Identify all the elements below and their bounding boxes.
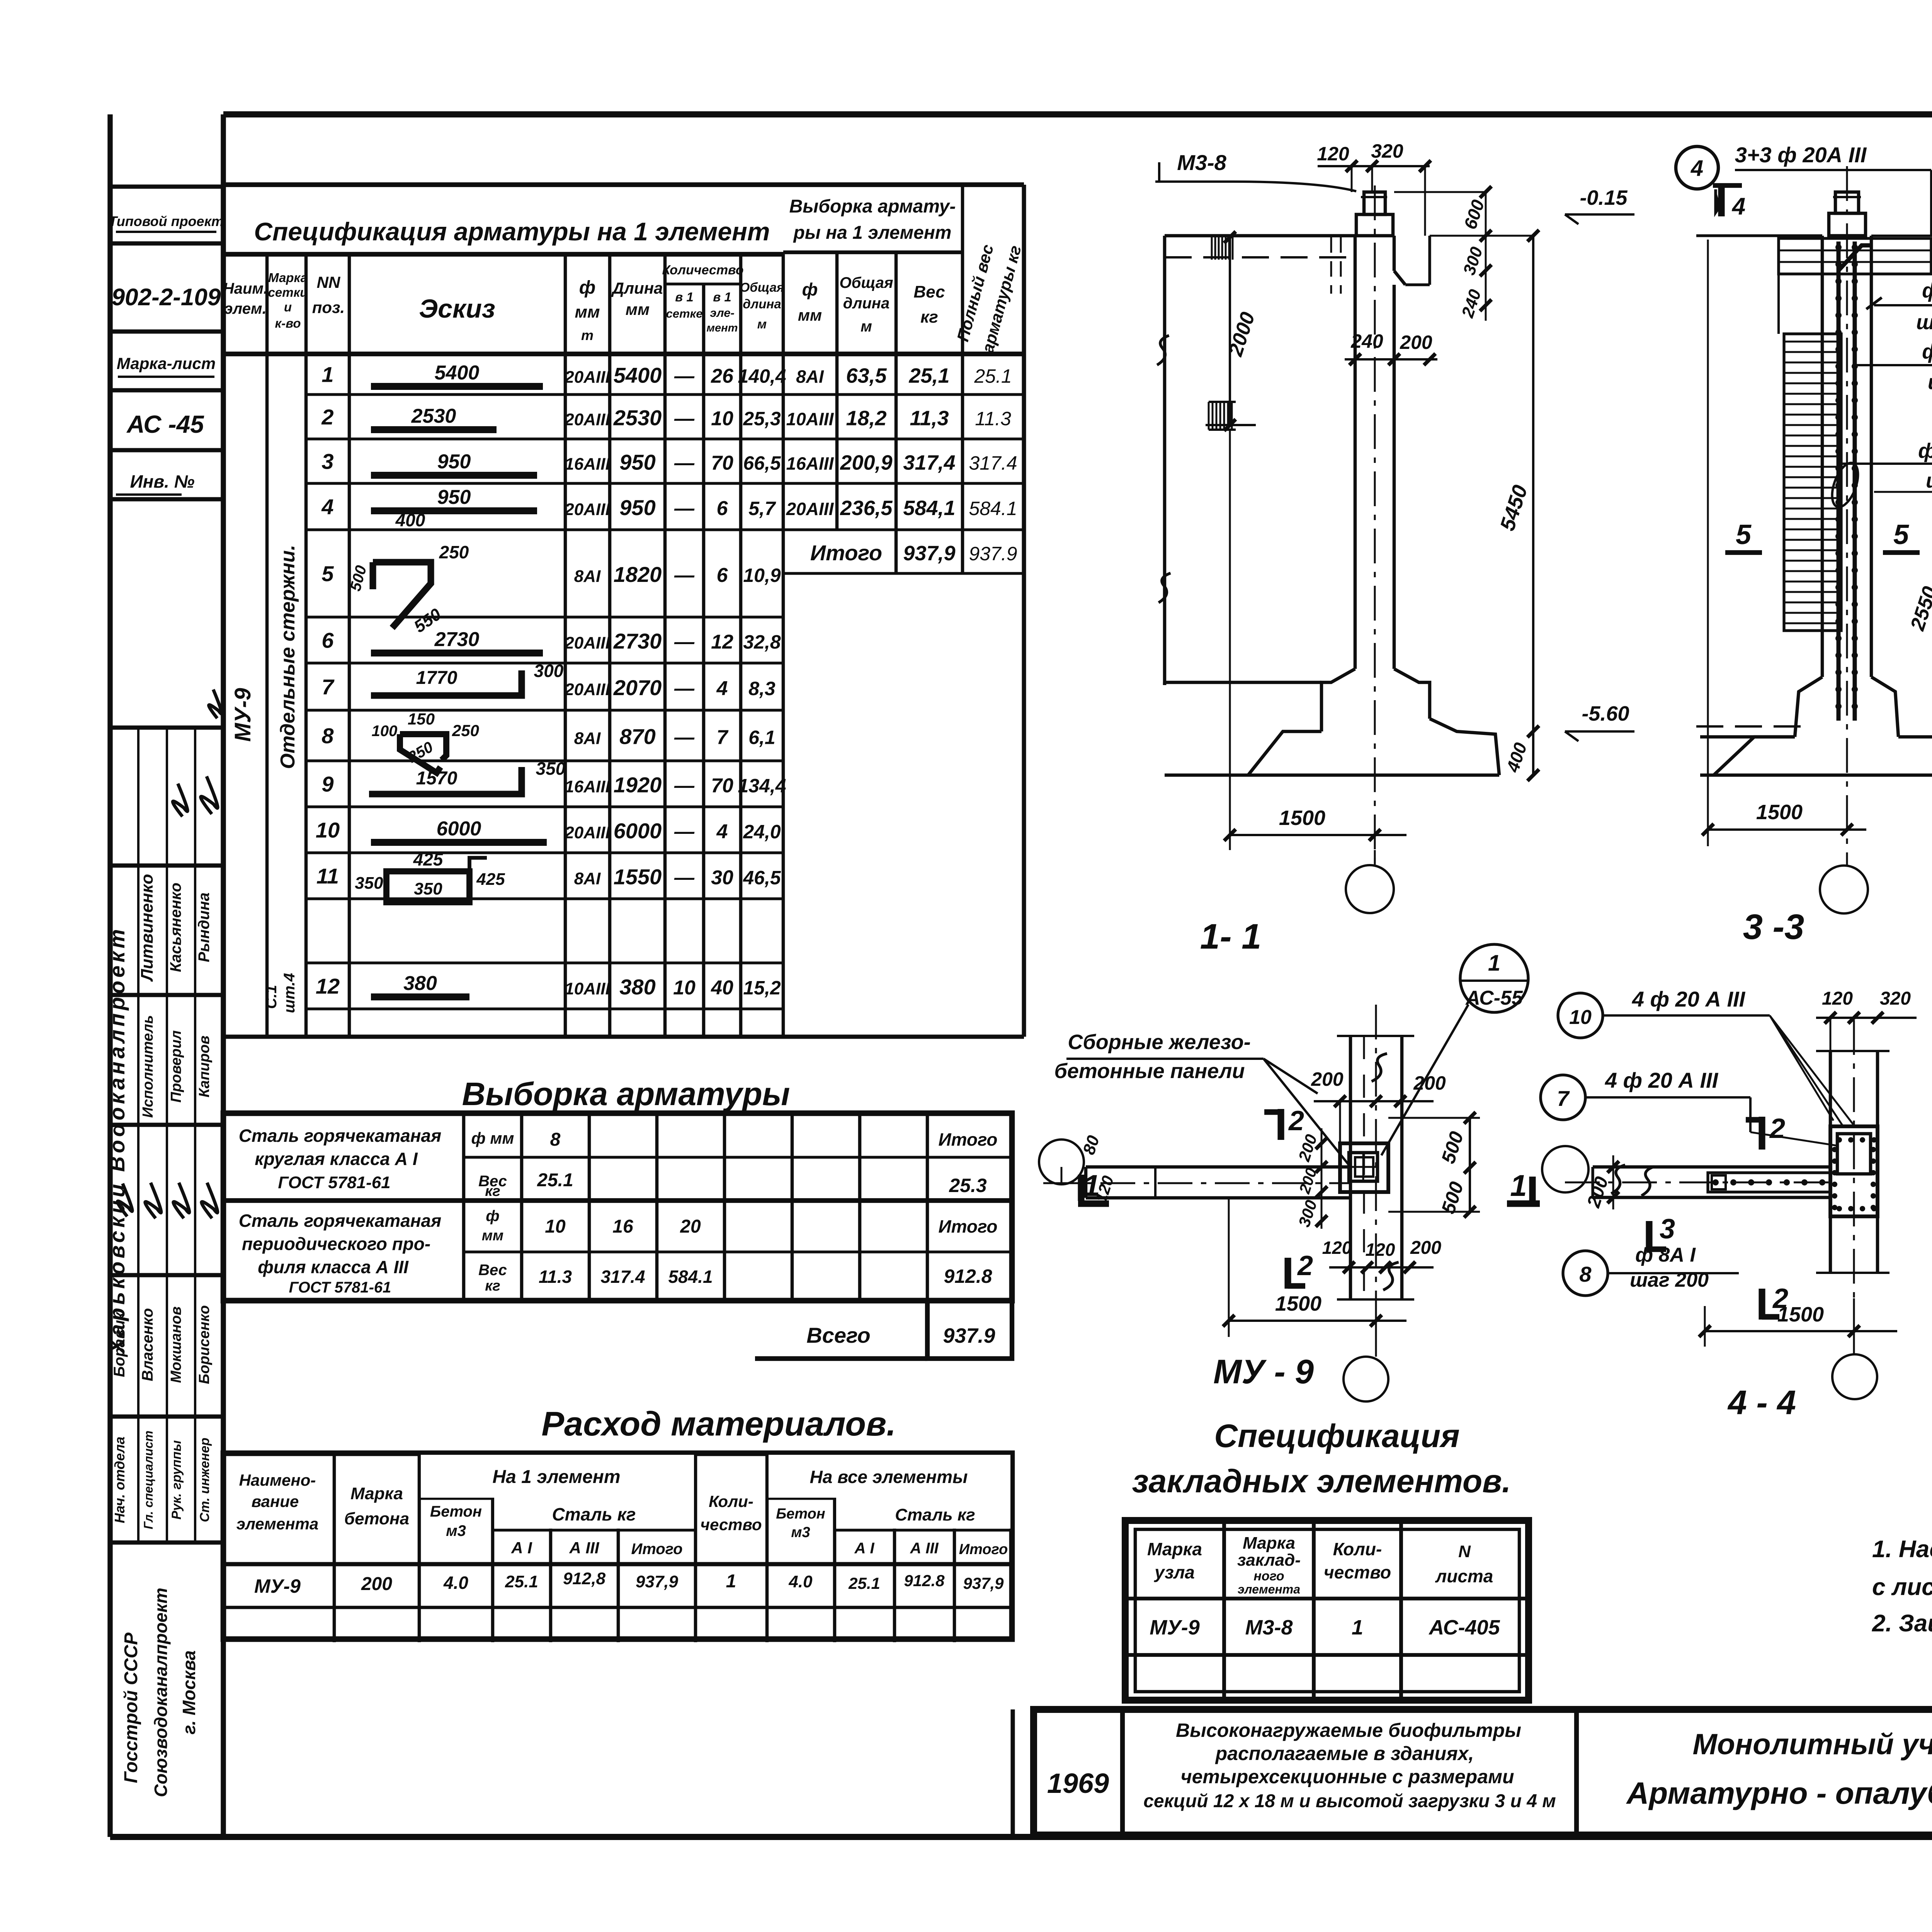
- svg-text:—: —: [674, 408, 695, 430]
- svg-text:2: 2: [321, 405, 333, 429]
- svg-text:240: 240: [1350, 330, 1383, 352]
- plan mu9 marker 2 top: [1264, 1105, 1304, 1140]
- svg-text:Расход материалов.: Расход материалов.: [541, 1405, 896, 1443]
- title block 1969: [1047, 1768, 1109, 1799]
- section 3-3 callout 1 f20AIII: [1855, 340, 1932, 394]
- stamp rotated names: [105, 689, 230, 1529]
- svg-text:длина: длина: [743, 297, 781, 311]
- svg-text:8: 8: [550, 1129, 561, 1150]
- svg-text:6: 6: [717, 497, 728, 520]
- svg-text:140,4: 140,4: [738, 366, 786, 387]
- svg-text:6,1: 6,1: [748, 727, 776, 748]
- svg-text:40: 40: [711, 977, 733, 999]
- svg-text:Сборные железо-: Сборные железо-: [1068, 1031, 1250, 1054]
- svg-text:Бетон: Бетон: [776, 1506, 825, 1522]
- svg-text:Общая: Общая: [740, 280, 784, 294]
- section 3-3 top markers: [1676, 143, 1932, 236]
- svg-text:8: 8: [1579, 1262, 1592, 1286]
- spec table outer: [223, 185, 1024, 254]
- svg-text:1: 1: [1488, 951, 1500, 976]
- svg-text:—: —: [674, 726, 695, 749]
- svg-text:—: —: [674, 631, 695, 653]
- svg-text:950: 950: [619, 495, 655, 520]
- svg-text:4: 4: [321, 495, 333, 519]
- svg-text:350: 350: [414, 879, 442, 898]
- svg-text:30: 30: [711, 867, 733, 889]
- svg-text:мм: мм: [626, 300, 650, 318]
- spec sketch row11 closed loop: [355, 849, 505, 902]
- svg-text:8: 8: [321, 724, 334, 748]
- svg-text:АС-55: АС-55: [1465, 987, 1523, 1009]
- svg-text:1920: 1920: [614, 773, 662, 797]
- svg-text:—: —: [674, 564, 695, 587]
- plan mu9 dim 1500: [1223, 1198, 1406, 1337]
- svg-text:Нач. отдела: Нач. отдела: [112, 1437, 128, 1523]
- svg-text:г. Москва: г. Москва: [179, 1650, 199, 1735]
- svg-text:950: 950: [437, 451, 471, 473]
- section 1-1 column: [1331, 185, 1430, 866]
- svg-text:Длина: Длина: [611, 279, 663, 297]
- svg-text:24,0: 24,0: [743, 821, 781, 843]
- section 3-3 dim 1500: [1702, 240, 1866, 846]
- svg-text:5400: 5400: [435, 362, 480, 384]
- svg-text:-5.60: -5.60: [1582, 702, 1629, 725]
- svg-text:Мокшанов: Мокшанов: [168, 1306, 184, 1383]
- svg-text:МУ-9: МУ-9: [230, 688, 255, 742]
- svg-text:Марка: Марка: [1147, 1539, 1202, 1559]
- svg-text:16АIII: 16АIII: [565, 777, 610, 796]
- svg-text:мм: мм: [575, 303, 600, 321]
- svg-text:Высоконагружаемые биофильтры: Высоконагружаемые биофильтры: [1176, 1719, 1521, 1741]
- svg-text:ф: ф: [486, 1207, 499, 1225]
- svg-text:ры на 1 элемент: ры на 1 элемент: [793, 223, 952, 243]
- svg-text:120: 120: [1366, 1240, 1395, 1260]
- section 1-1 wall & floor: [1157, 236, 1355, 685]
- section 3-3 axis circle: [1820, 866, 1868, 913]
- section 1-1 footing: [1165, 669, 1499, 775]
- svg-text:элем.: элем.: [224, 300, 266, 317]
- svg-text:26: 26: [711, 365, 734, 388]
- svg-text:2: 2: [1297, 1250, 1313, 1281]
- spec right totals: [786, 364, 1017, 565]
- svg-text:А I: А I: [511, 1539, 532, 1557]
- plan 44 axis circles: [1542, 1146, 1877, 1399]
- svg-text:N: N: [1458, 1542, 1471, 1561]
- svg-text:4 ф 20 А III: 4 ф 20 А III: [1605, 1068, 1719, 1092]
- svg-text:—: —: [674, 452, 695, 474]
- svg-text:располагаемые в зданиях,: располагаемые в зданиях,: [1215, 1743, 1474, 1764]
- svg-text:Итого: Итого: [631, 1541, 682, 1558]
- svg-text:Итого: Итого: [939, 1129, 998, 1150]
- svg-text:шт.4: шт.4: [281, 973, 298, 1013]
- svg-text:6000: 6000: [437, 818, 481, 840]
- plan mu9 title: [1213, 1352, 1314, 1391]
- svg-text:937,9: 937,9: [903, 542, 955, 565]
- svg-text:5: 5: [1893, 519, 1909, 550]
- svg-text:кг: кг: [485, 1183, 500, 1199]
- svg-text:Марка: Марка: [1243, 1534, 1295, 1553]
- plan 44 callout 10: [1558, 987, 1855, 1126]
- svg-text:584.1: 584.1: [969, 498, 1017, 519]
- svg-text:Рындина: Рындина: [196, 893, 213, 963]
- svg-text:Типовой проект: Типовой проект: [109, 213, 224, 229]
- svg-text:—: —: [674, 677, 695, 700]
- svg-text:длина: длина: [843, 295, 889, 312]
- svg-text:и: и: [284, 300, 292, 314]
- spec sketch row7 bar w hook: [371, 661, 564, 696]
- section 1-1 dim 2000: [1206, 231, 1259, 431]
- svg-text:8,3: 8,3: [748, 678, 776, 699]
- svg-text:3+3 ф 20А III: 3+3 ф 20А III: [1735, 143, 1867, 167]
- svg-text:ф 20А III: ф 20А III: [1918, 439, 1932, 463]
- svg-text:70: 70: [711, 775, 733, 797]
- svg-text:902-2-109: 902-2-109: [112, 284, 221, 311]
- section 3-3 callout 5 f8AI: [1866, 279, 1932, 334]
- svg-text:8АI: 8АI: [574, 567, 601, 586]
- zakladnye title: [1132, 1418, 1511, 1499]
- svg-text:вание: вание: [252, 1492, 299, 1510]
- svg-text:5400: 5400: [614, 363, 662, 388]
- svg-text:элемента: элемента: [1238, 1582, 1300, 1596]
- plan 44 column strip: [1816, 1020, 1889, 1298]
- svg-text:6: 6: [717, 564, 728, 587]
- svg-text:Касьяненко: Касьяненко: [167, 883, 184, 972]
- svg-text:мм: мм: [798, 306, 822, 324]
- svg-text:Спецификация: Спецификация: [1214, 1418, 1459, 1454]
- svg-text:мм: мм: [482, 1228, 503, 1244]
- svg-text:Борисенко: Борисенко: [196, 1305, 213, 1384]
- svg-text:Коли-: Коли-: [709, 1492, 753, 1510]
- svg-text:25.1: 25.1: [537, 1170, 573, 1190]
- svg-text:2. Защитный слой бетона: 2. Защитный слой бетона до рабочей армат…: [1872, 1610, 1932, 1637]
- svg-text:к-во: к-во: [275, 316, 301, 330]
- svg-text:134,4: 134,4: [738, 775, 786, 797]
- svg-text:4: 4: [1731, 193, 1745, 220]
- svg-text:320: 320: [1880, 988, 1911, 1009]
- svg-text:150: 150: [408, 710, 435, 728]
- svg-text:Проверил: Проверил: [168, 1031, 184, 1103]
- svg-text:На все элементы: На все элементы: [810, 1467, 968, 1487]
- svg-text:1770: 1770: [416, 668, 457, 688]
- svg-text:6000: 6000: [614, 819, 662, 843]
- svg-text:Марка: Марка: [350, 1484, 403, 1503]
- plan mu9 dims right 500 500: [1388, 1112, 1480, 1218]
- svg-text:м: м: [861, 318, 872, 335]
- svg-text:100: 100: [372, 723, 398, 740]
- svg-text:МУ-9: МУ-9: [1150, 1616, 1200, 1639]
- svg-text:20АIII: 20АIII: [564, 368, 610, 387]
- svg-text:70: 70: [711, 452, 733, 474]
- svg-text:2530: 2530: [613, 406, 662, 430]
- svg-text:912.8: 912.8: [944, 1265, 992, 1287]
- spec sketch row5 bent bar: [347, 542, 469, 636]
- svg-text:круглая класса А I: круглая класса А I: [255, 1149, 418, 1169]
- svg-text:10АIII: 10АIII: [786, 409, 834, 429]
- svg-text:четырехсекционные с размерами: четырехсекционные с размерами: [1180, 1766, 1514, 1787]
- svg-text:46,5: 46,5: [743, 867, 781, 889]
- svg-text:Инв. №: Инв. №: [130, 471, 195, 492]
- svg-text:1500: 1500: [1777, 1303, 1824, 1326]
- svg-text:сетки: сетки: [268, 285, 308, 299]
- section 3-3 labels 5: [1725, 519, 1920, 553]
- svg-text:200,9: 200,9: [840, 451, 892, 474]
- svg-text:Власенко: Власенко: [139, 1308, 156, 1381]
- svg-text:16АIII: 16АIII: [786, 454, 834, 474]
- svg-text:912,8: 912,8: [563, 1569, 606, 1588]
- svg-text:300: 300: [534, 661, 564, 681]
- svg-text:7: 7: [321, 675, 335, 699]
- vyborka title: [462, 1076, 790, 1112]
- svg-text:25.1: 25.1: [974, 366, 1012, 387]
- svg-text:4.0: 4.0: [788, 1572, 813, 1591]
- svg-text:М3-8: М3-8: [1245, 1616, 1293, 1639]
- section 1-1 top dims 120 320: [1317, 140, 1431, 236]
- svg-text:ного: ного: [1253, 1569, 1284, 1583]
- plan 44 callout 7: [1541, 1068, 1837, 1146]
- vsego total: [755, 1301, 1012, 1359]
- svg-text:350: 350: [536, 759, 566, 779]
- svg-text:317,4: 317,4: [903, 451, 955, 474]
- svg-text:в 1: в 1: [675, 290, 693, 304]
- svg-text:317.4: 317.4: [600, 1267, 645, 1287]
- svg-text:сетке: сетке: [666, 307, 703, 320]
- svg-text:7: 7: [1557, 1086, 1570, 1111]
- svg-text:ГОСТ 5781-61: ГОСТ 5781-61: [278, 1173, 390, 1192]
- svg-text:Гл. специалист: Гл. специалист: [141, 1430, 155, 1529]
- svg-text:11.3: 11.3: [539, 1267, 572, 1287]
- spec rows content: [316, 362, 786, 999]
- svg-text:Сталь кг: Сталь кг: [895, 1505, 975, 1524]
- svg-text:Отдельные стержни.: Отдельные стержни.: [277, 545, 299, 769]
- section 1-1 right small dims: [1394, 186, 1492, 321]
- section 1-1 dim 400: [1502, 740, 1531, 775]
- svg-text:2070: 2070: [613, 675, 662, 700]
- section 1-1 label M3-8: [1155, 150, 1356, 191]
- notes lines: [1872, 1536, 1932, 1637]
- section 1-1 level -5.60: [1565, 702, 1634, 741]
- svg-text:Коли-: Коли-: [1333, 1539, 1382, 1559]
- svg-text:4: 4: [716, 677, 728, 700]
- svg-text:25.1: 25.1: [848, 1574, 880, 1592]
- svg-text:эле-: эле-: [710, 306, 735, 320]
- stamp bottom box: [121, 1588, 199, 1797]
- plan mu9 leader text: [1054, 1031, 1350, 1167]
- svg-text:937,9: 937,9: [963, 1574, 1004, 1592]
- svg-text:элемента: элемента: [236, 1515, 319, 1533]
- svg-text:м: м: [757, 317, 767, 331]
- svg-text:20АIII: 20АIII: [564, 410, 610, 429]
- svg-text:кг: кг: [920, 308, 938, 327]
- svg-text:120: 120: [1317, 143, 1349, 165]
- svg-text:380: 380: [619, 975, 655, 999]
- svg-text:20АIII: 20АIII: [564, 634, 610, 653]
- svg-text:ф: ф: [802, 279, 818, 299]
- plan 44 top dims 120 320: [1816, 988, 1917, 1051]
- spec table body grid: [223, 185, 1024, 1037]
- plan mu9 wall: [1043, 1167, 1350, 1198]
- svg-text:350: 350: [355, 874, 383, 893]
- svg-text:Боравик: Боравик: [111, 1311, 128, 1377]
- svg-text:4 - 4: 4 - 4: [1727, 1383, 1796, 1422]
- plan mu9 marker 2 bottom: [1288, 1250, 1313, 1289]
- svg-text:Общая: Общая: [839, 274, 893, 291]
- svg-text:МУ - 9: МУ - 9: [1213, 1352, 1314, 1391]
- plan 44 marker 3: [1649, 1214, 1675, 1252]
- svg-text:584,1: 584,1: [903, 497, 955, 520]
- svg-text:Госстрой СССР: Госстрой СССР: [121, 1632, 141, 1783]
- svg-text:мент: мент: [707, 322, 738, 334]
- svg-text:63,5: 63,5: [846, 364, 887, 388]
- svg-text:Капиров: Капиров: [196, 1036, 213, 1097]
- section 1-1 title: [1200, 917, 1262, 956]
- svg-text:—: —: [674, 497, 695, 520]
- svg-text:Исполнитель: Исполнитель: [140, 1015, 156, 1118]
- svg-text:ф мм: ф мм: [471, 1129, 514, 1147]
- svg-text:12: 12: [316, 974, 340, 998]
- svg-text:317.4: 317.4: [969, 452, 1017, 474]
- svg-text:584.1: 584.1: [668, 1267, 713, 1287]
- svg-text:7: 7: [717, 726, 729, 749]
- svg-text:На 1 элемент: На 1 элемент: [492, 1467, 620, 1487]
- spec sketch row8 bent: [372, 710, 479, 773]
- svg-text:4: 4: [1690, 156, 1703, 181]
- svg-text:950: 950: [619, 450, 655, 474]
- plan mu9 dims left: [1295, 1128, 1327, 1229]
- svg-text:м3: м3: [791, 1524, 810, 1541]
- plan 44 dim 1500: [1699, 1303, 1897, 1347]
- svg-text:АС -45: АС -45: [126, 410, 204, 438]
- plan 44 slab: [1565, 1165, 1832, 1197]
- plan 44 title: [1727, 1383, 1796, 1422]
- svg-text:1. Настоящий чертеж расста: 1. Настоящий чертеж расстатривать совтес…: [1872, 1536, 1932, 1563]
- svg-text:12: 12: [711, 631, 733, 653]
- svg-text:250: 250: [439, 542, 469, 562]
- svg-text:узла: узла: [1154, 1562, 1195, 1582]
- section 3-3 title: [1743, 907, 1804, 947]
- zakladnye table: [1125, 1520, 1529, 1700]
- svg-text:ГОСТ 5781-61: ГОСТ 5781-61: [289, 1279, 391, 1296]
- svg-text:16: 16: [612, 1216, 633, 1237]
- stamp signature grid: [110, 728, 223, 1543]
- svg-text:15,2: 15,2: [743, 977, 781, 999]
- svg-text:200: 200: [1410, 1238, 1441, 1258]
- svg-text:кг: кг: [485, 1278, 500, 1294]
- svg-text:2530: 2530: [411, 405, 456, 427]
- svg-text:шаг 200: шаг 200: [1928, 371, 1932, 394]
- svg-text:8АI: 8АI: [574, 869, 601, 888]
- title block name: [1626, 1728, 1932, 1810]
- plan 44 marker 1 left: [1507, 1168, 1540, 1204]
- svg-text:950: 950: [437, 486, 471, 509]
- svg-text:Выборка армату-: Выборка армату-: [789, 196, 956, 217]
- plan mu9 center box: [1340, 1143, 1388, 1192]
- svg-text:Вес: Вес: [913, 282, 945, 301]
- svg-text:АС-405: АС-405: [1428, 1616, 1500, 1639]
- svg-text:2: 2: [1288, 1105, 1304, 1136]
- plan mu9 axis circles: [1039, 1139, 1388, 1401]
- section 3-3 rebar: [1835, 241, 1872, 721]
- svg-text:25,1: 25,1: [908, 364, 949, 388]
- plan mu9 dims top 200 200: [1311, 1068, 1446, 1143]
- svg-text:3 -3: 3 -3: [1743, 907, 1804, 947]
- svg-text:1- 1: 1- 1: [1200, 917, 1262, 956]
- svg-text:А III: А III: [569, 1539, 599, 1557]
- rashod table: [223, 1453, 1012, 1642]
- svg-text:400: 400: [395, 510, 425, 530]
- svg-text:11.3: 11.3: [975, 408, 1011, 430]
- svg-text:Итого: Итого: [939, 1216, 998, 1236]
- stamp column boxes: [109, 187, 224, 499]
- svg-text:—: —: [674, 365, 695, 388]
- section 1-1 level -0.15: [1565, 186, 1634, 224]
- plan mu9 marker 1 left: [1078, 1133, 1117, 1205]
- svg-text:поз.: поз.: [312, 298, 345, 316]
- svg-text:5: 5: [321, 561, 334, 586]
- svg-text:4: 4: [716, 821, 728, 843]
- svg-text:200: 200: [361, 1574, 392, 1594]
- plan 44 marker 2 bottom: [1762, 1283, 1788, 1320]
- section 3-3 column: [1696, 166, 1932, 866]
- svg-text:Вес: Вес: [478, 1262, 507, 1279]
- svg-text:Монолитный участок МУ -9: Монолитный участок МУ -9: [1693, 1728, 1932, 1761]
- svg-text:Сталь горячекатаная: Сталь горячекатаная: [239, 1211, 441, 1231]
- svg-text:шаг 200: шаг 200: [1916, 311, 1932, 334]
- svg-text:бетона: бетона: [344, 1509, 409, 1528]
- plan 44 callout 8: [1563, 1244, 1739, 1296]
- svg-text:10,9: 10,9: [743, 565, 781, 586]
- title block description: [1143, 1719, 1556, 1811]
- svg-text:20: 20: [680, 1216, 701, 1237]
- svg-text:шаг 200: шаг 200: [1926, 469, 1932, 492]
- svg-text:120: 120: [1822, 988, 1853, 1009]
- svg-text:20АIII: 20АIII: [564, 823, 610, 842]
- svg-text:9: 9: [321, 772, 333, 796]
- svg-text:66,5: 66,5: [743, 452, 781, 474]
- svg-text:секций 12 х 18 м и высотой: секций 12 х 18 м и высотой загрузки 3 и …: [1143, 1791, 1556, 1811]
- svg-text:ф 8А I: ф 8А I: [1922, 279, 1932, 302]
- svg-text:Рук. группы: Рук. группы: [169, 1440, 184, 1519]
- spec table header: [223, 196, 1025, 355]
- svg-text:ф: ф: [579, 277, 595, 298]
- svg-text:10АIII: 10АIII: [565, 980, 610, 998]
- svg-text:6: 6: [321, 628, 334, 653]
- svg-text:1500: 1500: [1279, 806, 1325, 830]
- svg-text:320: 320: [1371, 140, 1403, 162]
- plan mu9 bottom dims 120 120 200: [1322, 1238, 1442, 1273]
- svg-text:11: 11: [316, 864, 339, 888]
- svg-text:25.1: 25.1: [505, 1572, 538, 1591]
- svg-text:т: т: [581, 327, 594, 343]
- svg-text:20АIII: 20АIII: [786, 499, 834, 519]
- svg-text:425: 425: [413, 849, 444, 869]
- svg-text:4.0: 4.0: [443, 1573, 468, 1593]
- svg-text:в 1: в 1: [713, 290, 731, 304]
- svg-text:20АIII: 20АIII: [564, 500, 610, 519]
- svg-text:—: —: [674, 821, 695, 843]
- svg-text:2730: 2730: [434, 628, 480, 651]
- svg-text:25,3: 25,3: [743, 408, 781, 430]
- svg-text:Ст. инженер: Ст. инженер: [197, 1438, 212, 1522]
- svg-text:120: 120: [1322, 1238, 1352, 1258]
- svg-text:м3: м3: [446, 1522, 466, 1539]
- section 3-3 dim 2550: [1874, 486, 1932, 743]
- svg-text:10: 10: [711, 408, 733, 430]
- svg-text:Арматурно - опалубочный черте: Арматурно - опалубочный чертеж.: [1626, 1776, 1932, 1810]
- plan 44 center box: [1830, 1126, 1878, 1216]
- title block frame: [1013, 1709, 1932, 1837]
- section 1-1 axis circle: [1346, 850, 1394, 913]
- svg-text:3: 3: [1660, 1214, 1675, 1245]
